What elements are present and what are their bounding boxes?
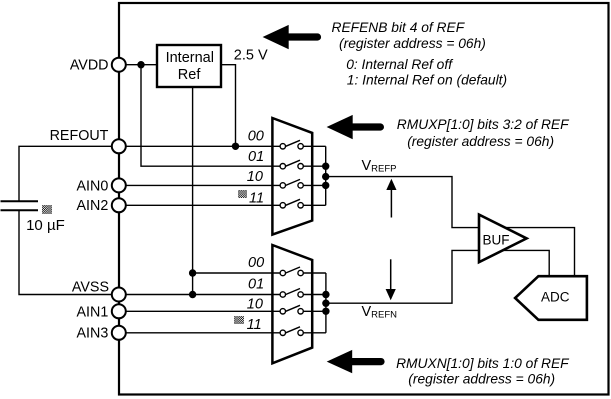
multiplexer U_N (lower reference mux) body	[272, 245, 312, 363]
wire AVDD pin to Internal Ref	[120, 64, 157, 66]
svg-text:10 µF: 10 µF	[26, 217, 65, 234]
svg-text:0: Internal Ref off: 0: Internal Ref off	[346, 57, 454, 72]
pin AVSS	[112, 288, 126, 302]
svg-text:01: 01	[248, 149, 264, 165]
wire capacitor to AVSS	[19, 210, 118, 294]
svg-text:01: 01	[248, 277, 264, 293]
svg-text:REFENB bit 4 of REF: REFENB bit 4 of REF	[332, 20, 466, 35]
ADC block	[515, 276, 587, 320]
wire AVSS to lower mux 01 input	[120, 294, 280, 296]
hatch mark near capacitor	[42, 205, 52, 214]
big arrow REFENB	[263, 25, 289, 49]
junction nodes upper mux output bus	[322, 163, 329, 170]
svg-text:RMUXN[1:0] bits 1:0 of REF: RMUXN[1:0] bits 1:0 of REF	[396, 356, 570, 371]
pin REFOUT	[112, 139, 126, 153]
wire AIN1 to lower mux 10 input	[120, 310, 280, 312]
junction node 2.5V / 00	[232, 143, 239, 150]
pin AVDD	[112, 58, 126, 72]
wire lower mux output stubs and bus	[303, 273, 326, 333]
junction node AVSS	[189, 291, 196, 298]
junction nodes lower mux output bus	[322, 291, 329, 298]
svg-text:00: 00	[248, 255, 264, 271]
svg-text:RMUXP[1:0] bits 3:2 of REF: RMUXP[1:0] bits 3:2 of REF	[397, 117, 570, 132]
arrow up toward VREFP	[390, 187, 392, 218]
svg-text:AIN0: AIN0	[77, 178, 109, 194]
wire 2.5V from Internal Ref to 00 node	[221, 65, 236, 147]
svg-text:2.5 V: 2.5 V	[234, 47, 268, 63]
wire AIN3 to lower mux 11 input	[120, 332, 280, 334]
svg-text:AIN3: AIN3	[77, 326, 109, 342]
pin AIN1	[112, 304, 126, 318]
switch S01 upper	[280, 160, 303, 169]
wire VREFN net to BUF and ADC	[326, 250, 549, 303]
svg-text:1: Internal Ref on (default): 1: Internal Ref on (default)	[347, 72, 507, 87]
svg-text:AIN2: AIN2	[77, 198, 109, 214]
svg-text:BUF: BUF	[483, 232, 510, 247]
Internal Ref box U1	[157, 45, 221, 87]
switch S11 lower	[280, 327, 303, 336]
wire REFOUT to upper mux 00 input	[120, 145, 280, 147]
wire Internal Ref bottom down to AVSS net	[192, 87, 194, 295]
switch S00 upper	[280, 140, 303, 149]
wire VREFP net to BUF and ADC	[326, 177, 575, 277]
svg-text:REFOUT: REFOUT	[50, 128, 109, 144]
svg-text:10: 10	[247, 169, 263, 185]
svg-text:Internal: Internal	[166, 50, 214, 66]
wire AIN0 to upper mux 10 input	[120, 184, 280, 186]
svg-text:11: 11	[249, 191, 264, 207]
big arrow RMUXP	[327, 115, 353, 139]
op-amp buffer BUF	[479, 215, 527, 263]
svg-text:11: 11	[247, 317, 262, 333]
svg-text:00: 00	[248, 128, 264, 144]
wire to lower mux 00 input	[193, 272, 280, 274]
wire AVDD branch down to upper mux 01 input	[141, 65, 280, 167]
svg-text:AVSS: AVSS	[72, 279, 109, 295]
arrow down toward VREFN	[390, 259, 392, 290]
svg-text:(register address = 06h): (register address = 06h)	[408, 371, 555, 386]
big arrow RMUXN	[327, 350, 353, 373]
pin AIN0	[112, 178, 126, 192]
pin AIN3	[112, 326, 126, 340]
junction node lower 00	[189, 269, 196, 276]
hatch mark lower mux 11	[234, 316, 244, 324]
capacitor C1 10uF plates	[1, 200, 39, 202]
pin AIN2	[112, 198, 126, 212]
switch S00 lower	[280, 267, 303, 276]
svg-text:Ref: Ref	[178, 67, 202, 83]
svg-text:10: 10	[247, 297, 263, 313]
wire REFOUT to external capacitor	[19, 146, 118, 201]
hatch mark upper mux 11	[238, 190, 247, 198]
junction node AVDD branch	[137, 61, 144, 68]
svg-text:AVDD: AVDD	[70, 58, 109, 74]
switch S10 lower	[280, 305, 303, 314]
svg-text:(register address = 06h): (register address = 06h)	[339, 36, 486, 51]
chip boundary box	[119, 3, 609, 395]
switch S11 upper	[280, 199, 303, 208]
switch S10 upper	[280, 179, 303, 188]
svg-text:(register address = 06h): (register address = 06h)	[407, 134, 554, 149]
wire upper mux output stubs and bus	[303, 146, 326, 205]
wire AIN2 to upper mux 11 input	[120, 204, 280, 206]
svg-text:AIN1: AIN1	[77, 304, 109, 320]
svg-text:ADC: ADC	[541, 290, 570, 305]
switch S01 lower	[280, 289, 303, 298]
multiplexer U_P (upper reference mux) body	[272, 118, 312, 235]
